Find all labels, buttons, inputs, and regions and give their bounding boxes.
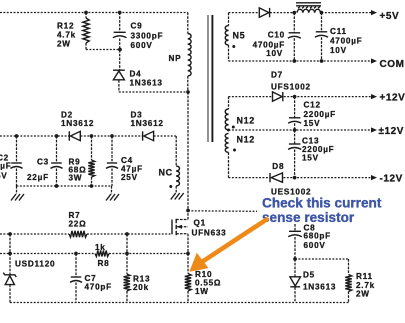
svg-text:R11: R11 [356,272,373,281]
svg-text:2µF: 2µF [0,162,12,171]
polarity dot N12 lower [233,149,236,152]
svg-text:470pF: 470pF [85,283,112,292]
resistor R10 [187,254,189,274]
wire 12V rail a [229,96,273,98]
inductor L1 filter choke [297,9,321,12]
svg-text:5V: 5V [0,172,8,181]
junction node C10 bottom [292,59,296,63]
svg-text:C10: C10 [268,31,285,40]
capacitor C4 [111,136,113,163]
ground NC [175,186,177,193]
terminal arrow COM [371,58,377,63]
resistor R11 [348,259,350,275]
svg-text:10V: 10V [266,49,283,58]
svg-text:±12V: ±12V [379,126,404,137]
wire source bus segment a [0,253,95,255]
wire center tap rail [229,129,373,131]
svg-text:1N3612: 1N3612 [131,119,164,128]
svg-text:R8: R8 [98,259,110,268]
capacitor C2 [16,136,18,163]
svg-text:D8: D8 [272,162,284,171]
junction node C12 bottom [293,128,297,132]
svg-text:4.7k: 4.7k [57,31,76,40]
svg-text:1N3613: 1N3613 [303,283,336,292]
svg-text:C9: C9 [131,22,143,31]
svg-text:USD1120: USD1120 [15,259,55,268]
junction node R12 top [84,11,88,15]
junction node C10 top [292,11,296,15]
junction node C12 top [293,95,297,99]
polarity dot N5 [232,45,235,48]
svg-text:+5V: +5V [380,11,400,22]
resistor R9 [91,136,93,160]
wire primary rail to Q1 drain [187,92,189,211]
wire D4 to primary rail [119,91,188,93]
transformer secondary winding N12 upper [228,97,230,109]
resistor R7 [69,231,87,237]
capacitor C12 [294,97,296,118]
junction node center tap [227,129,230,132]
transformer secondary winding N5 [228,13,230,26]
svg-text:Q1: Q1 [194,219,206,228]
svg-text:3W: 3W [69,174,83,183]
ground left [16,186,18,194]
wire drain to snubber [188,210,257,213]
svg-text:C12: C12 [304,101,321,110]
svg-text:C11: C11 [330,27,347,36]
ground C4 [111,186,113,194]
svg-text:D4: D4 [130,70,142,79]
svg-text:15V: 15V [304,119,321,128]
junction node gate/R13 [125,232,129,236]
junction node R9 top [90,134,94,138]
capacitor C10 [293,13,295,33]
junction node snubber mid [293,257,297,261]
junction node Q1 source [186,252,190,256]
junction node C2 [15,134,19,138]
transformer core [207,15,209,142]
junction node C9/D4 [118,48,122,52]
wire source bus segment b [109,253,188,255]
svg-text:D5: D5 [303,271,315,280]
wire gate-to-R13 link [126,234,128,254]
transformer winding NC [175,136,177,166]
wire left bus segment c [154,135,176,137]
svg-text:Check this current: Check this current [262,195,382,210]
wire 12V rail b [284,96,372,98]
junction node C3 bottom [55,184,59,188]
svg-text:-12V: -12V [380,173,403,184]
svg-text:600V: 600V [131,41,153,50]
svg-text:2W: 2W [57,40,71,49]
svg-text:R12: R12 [57,22,74,31]
svg-text:22Ω: 22Ω [69,219,87,228]
svg-text:600V: 600V [304,241,326,250]
junction node C7 top [74,252,78,256]
diode D5 [294,259,296,277]
diode D2 [68,131,70,140]
zener diode USD1120 [9,234,11,254]
terminal arrow +12V [371,94,377,99]
terminal arrow +5V [371,10,377,15]
capacitor C11 [321,13,323,32]
wire COM rail [229,60,373,62]
svg-text:NP: NP [169,54,182,63]
annotation arrow to R10 [198,220,267,265]
wire 5V rail c [322,12,373,14]
svg-text:680pF: 680pF [304,232,331,241]
svg-text:2W: 2W [356,289,370,298]
capacitor C3 [56,136,58,163]
wire 5V rail b [270,12,294,14]
diode D8 [269,173,271,182]
svg-text:C3: C3 [37,158,49,167]
wire gate bus segment b [87,233,172,235]
svg-text:10V: 10V [330,46,347,55]
svg-text:20k: 20k [133,283,149,292]
diode D6 rectifier [259,8,269,17]
junction node C3 top [55,134,59,138]
svg-text:3300pF: 3300pF [131,32,164,41]
junction node R9 bottom [90,184,94,188]
capacitor C8 [294,224,296,231]
svg-text:25V: 25V [121,173,138,182]
svg-text:UFN633: UFN633 [192,229,227,238]
svg-text:sense resistor: sense resistor [262,210,355,225]
svg-text:UFS1002: UFS1002 [271,83,311,92]
terminal arrow -12V [371,175,377,180]
svg-text:22µF: 22µF [27,173,49,182]
wire -12V rail a [229,177,271,179]
svg-text:+12V: +12V [380,93,405,104]
svg-text:N5: N5 [233,31,246,41]
transistor Q1 [171,220,173,235]
resistor R13 [126,254,128,275]
junction node C13 bottom [293,176,297,180]
junction node source bus left [8,252,12,256]
svg-text:1k: 1k [95,243,106,252]
svg-text:4700µF: 4700µF [253,40,285,49]
wire ground bus bottom [10,302,349,304]
capacitor C13 [294,130,296,144]
svg-text:1N3612: 1N3612 [61,119,94,128]
junction node C11 top [320,11,324,15]
junction node C4 top [110,134,114,138]
resistor R12 [85,13,87,19]
polarity dot NC [169,185,172,188]
resistor R8 [95,251,109,257]
transformer primary winding NP [187,13,189,34]
svg-text:4700µF: 4700µF [330,37,362,46]
wire primary top bus [0,12,188,14]
polarity dot N12 upper [232,126,235,129]
wire left bus segment a [0,135,69,137]
wire snubber top [295,258,349,260]
svg-text:1W: 1W [195,287,209,296]
svg-text:N12: N12 [237,116,255,126]
svg-text:2200µF: 2200µF [304,110,336,119]
diode D3 [142,131,144,140]
terminal arrow 12V return [371,127,377,132]
junction node primary rail [186,90,190,94]
wire left bus segment b [81,135,143,137]
svg-text:NC: NC [159,168,173,178]
svg-text:D7: D7 [271,71,283,80]
capacitor C7 [75,254,77,278]
svg-text:15V: 15V [302,153,319,162]
junction node USD top [8,232,12,236]
wire R12 bottom to C9 [86,49,120,51]
transformer secondary winding N12 lower [225,133,228,152]
svg-text:1N3613: 1N3613 [130,78,163,87]
junction node C9 top [118,11,122,15]
svg-text:COM: COM [380,59,405,70]
diode D7 [273,92,283,101]
wire 5V rail a [229,12,260,14]
svg-text:N12: N12 [237,135,255,145]
junction node R13 mid [125,252,129,256]
capacitor C9 [119,13,121,33]
junction node C11 bottom [320,59,324,63]
wire snubber cap bottom bus [17,185,113,187]
junction node Q1 drain/snubber [186,209,190,213]
wire gate bus segment a [0,233,69,235]
diode D4 [113,69,125,71]
wire -12V rail b [284,177,373,179]
